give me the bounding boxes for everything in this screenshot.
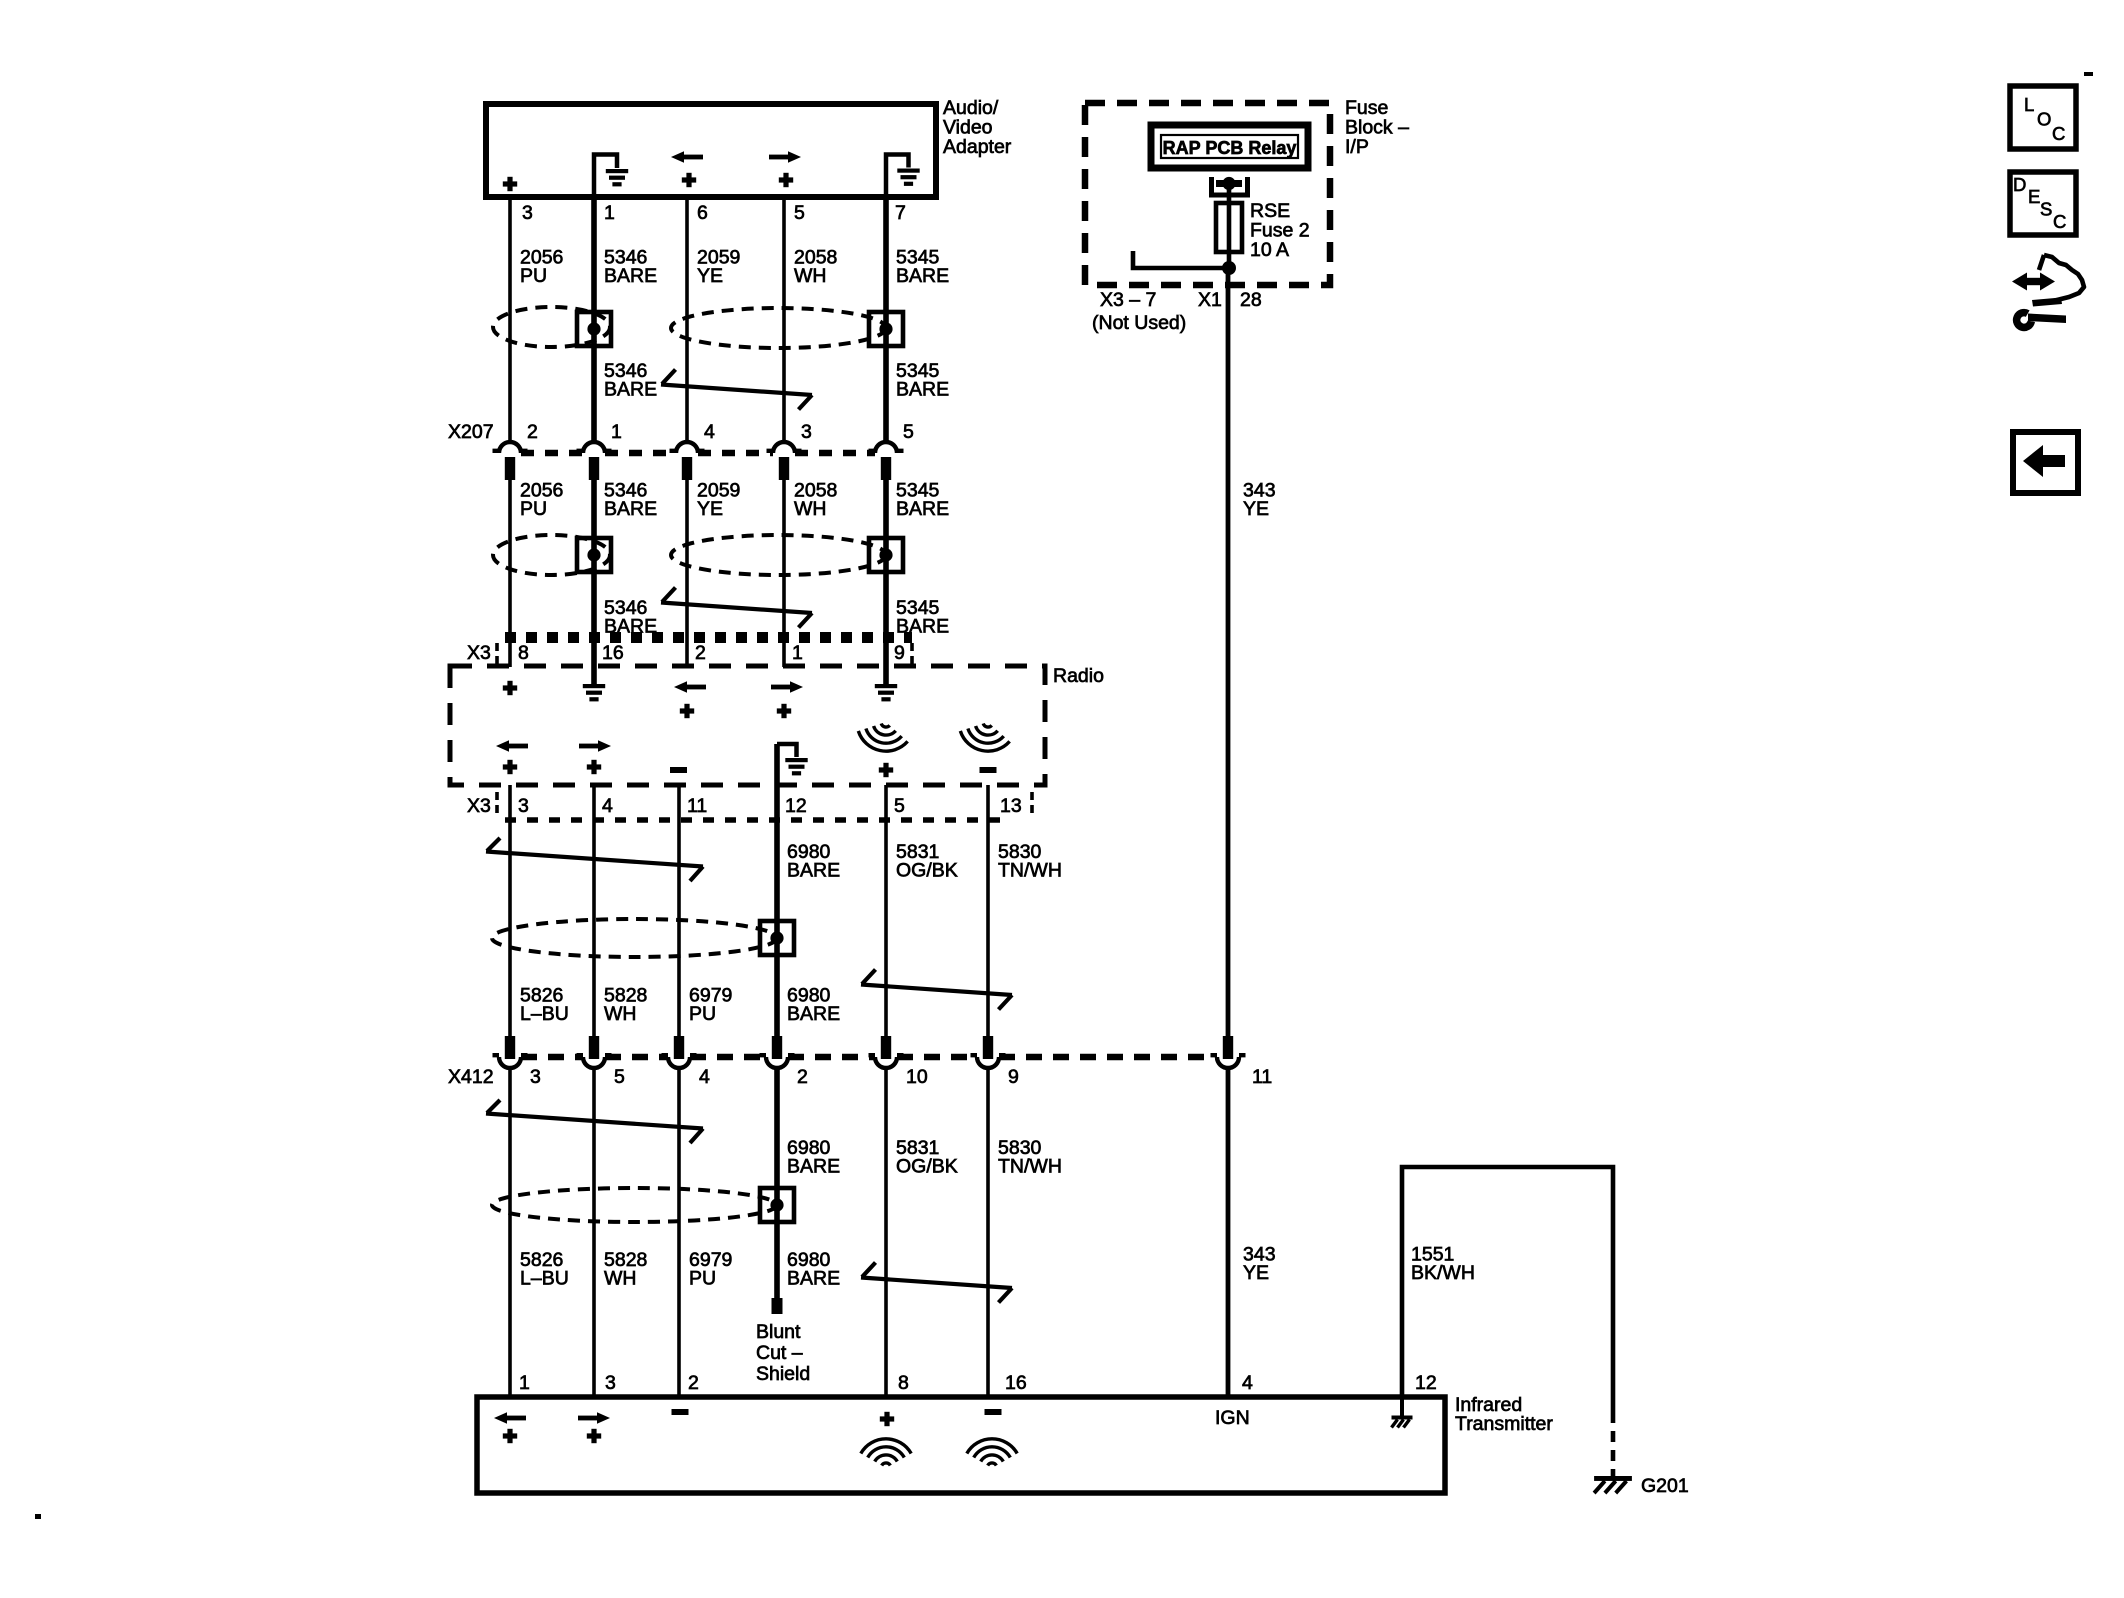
svg-text:Adapter: Adapter [943,136,1012,158]
radio antenna pin 13 [957,719,1012,756]
shield ellipse (2059/2058/5345) [671,308,886,348]
shield ellipse (2056/5346) [493,307,610,347]
IR pin 8 plus [880,1412,894,1426]
IR pin 16 minus [985,1409,1002,1415]
X412 terminal [674,1036,684,1059]
wire 6980 BARE seg1 [774,744,780,1037]
ground (AV pin 7) [897,169,919,186]
svg-text:X3: X3 [467,795,491,817]
radio pin 11 minus [670,767,687,773]
svg-text:28: 28 [1240,289,1262,311]
IR pin 3 plus [587,1429,601,1443]
svg-text:BARE: BARE [787,860,840,882]
radio pin 5 plus [879,763,893,777]
wire 5345 BARE seg2 [883,478,889,684]
IR antenna pin 16 [967,1439,1017,1466]
connector X3 (radio top) [505,632,912,643]
wire 5828 seg1 [592,785,596,1037]
svg-text:12: 12 [785,795,807,817]
svg-text:BARE: BARE [896,265,949,287]
Radio box [450,666,1045,785]
wire 5826 seg2 [508,1068,512,1397]
wire relay to fuse [1227,187,1232,268]
svg-text:1: 1 [519,1372,530,1394]
stray mark top right [2084,72,2093,76]
twist marker 1 [661,370,812,410]
tools icon wrench [2017,313,2032,328]
svg-text:WH: WH [794,498,827,520]
svg-text:12: 12 [1415,1372,1437,1394]
svg-text:E: E [2028,186,2040,207]
svg-text:BARE: BARE [896,616,949,638]
svg-text:BARE: BARE [604,379,657,401]
X207 terminal [670,442,705,453]
svg-text:WH: WH [604,1268,637,1290]
svg-text:16: 16 [602,642,624,664]
svg-text:11: 11 [687,795,707,817]
shield square row2 on 5346 [577,538,611,572]
svg-text:YE: YE [1243,1262,1269,1284]
wire 2056 PU seg1 [508,197,512,443]
radio antenna pin 5 [855,719,910,756]
svg-text:2: 2 [688,1372,699,1394]
radio pin 8 plus [503,681,517,695]
tools icon double arrow [2012,273,2027,291]
svg-text:4: 4 [602,795,613,817]
wire 5831 seg1 [884,785,888,1037]
svg-text:2: 2 [695,642,706,664]
radio pin 3 plus [503,760,517,774]
X3-7 stub wire [1133,251,1229,268]
twist marker 5 [486,1100,703,1143]
wire 6979 seg1 [677,785,681,1037]
X412 terminal [772,1036,782,1059]
svg-text:TN/WH: TN/WH [998,860,1062,882]
wire 2058 WH seg1 [782,197,786,443]
Fuse Block I/P dashed box [1085,103,1330,285]
svg-text:4: 4 [704,421,715,443]
svg-text:3: 3 [522,202,533,224]
LOC icon [2010,86,2076,149]
svg-text:(Not Used): (Not Used) [1092,312,1186,334]
back arrow icon [2013,432,2078,493]
shield ellipse row4 [492,1188,777,1222]
Infrared Transmitter box [477,1397,1445,1493]
svg-text:8: 8 [898,1372,909,1394]
shield square row4 on 6980 [760,1188,794,1222]
radio pin 12 ground hook [777,744,797,757]
ground (AV pin 1) [606,169,628,186]
svg-text:YE: YE [697,265,723,287]
svg-text:3: 3 [801,421,812,443]
X207 terminal [577,442,612,453]
wire 5345 BARE seg1 [883,197,889,443]
X207 terminal [493,442,528,453]
radio pin 1 arrow right [771,681,803,693]
IR pin 12 stub [1400,1397,1404,1416]
ground (radio pin 12) [785,758,807,775]
svg-text:Transmitter: Transmitter [1455,1413,1553,1435]
twist marker 3 [486,838,703,881]
svg-text:YE: YE [1243,498,1269,520]
X412 terminal [505,1036,515,1059]
svg-text:6: 6 [697,202,708,224]
svg-text:PU: PU [520,498,547,520]
IR pin 1 arrow left [494,1412,526,1424]
svg-text:4: 4 [699,1066,710,1088]
svg-text:PU: PU [689,1003,716,1025]
svg-text:WH: WH [794,265,827,287]
X412 terminal [1223,1036,1233,1059]
svg-text:RAP PCB Relay: RAP PCB Relay [1163,138,1297,158]
wire 2056 PU seg2 [508,478,512,667]
svg-text:I/P: I/P [1345,136,1369,158]
ground (radio pin 16) [583,684,605,701]
svg-text:G201: G201 [1641,1475,1689,1497]
svg-text:BARE: BARE [787,1268,840,1290]
X207 terminal [869,442,904,453]
radio pin 13 minus [980,767,997,773]
svg-text:10: 10 [906,1066,928,1088]
svg-text:16: 16 [1005,1372,1027,1394]
svg-text:5: 5 [794,202,805,224]
svg-text:PU: PU [689,1268,716,1290]
wire 5830 seg1 [986,785,990,1037]
IR pin 3 arrow right [578,1412,610,1424]
DESC icon [2010,172,2076,235]
svg-text:4: 4 [1242,1372,1253,1394]
wire 1551 BK/WH [1402,1167,1613,1412]
wire 6980 BARE seg2 [774,1068,780,1300]
svg-text:L: L [2024,94,2034,115]
radio pin 1 plus [777,704,791,718]
wire 5346 BARE seg2 [591,478,597,684]
twist marker 6 [861,1263,1012,1303]
wire 2058 WH seg2 [782,478,786,667]
X412 terminal [881,1036,891,1059]
chassis ground pin 12 [1392,1416,1413,1428]
tools icon outline [2039,255,2044,270]
AV pin 3 plus [503,177,517,191]
shield square on 6980 [760,921,794,955]
svg-text:8: 8 [518,642,529,664]
svg-text:L–BU: L–BU [520,1268,569,1290]
twist marker 4 [861,970,1012,1010]
svg-text:Blunt: Blunt [756,1321,801,1343]
AV pin 1 ground hook [594,155,617,199]
ground (radio pin 9) [875,684,897,701]
radio pin 4 arrow right [579,740,611,752]
X412 terminal [983,1036,993,1059]
svg-text:C: C [2052,123,2065,144]
svg-text:BARE: BARE [787,1003,840,1025]
X412 terminal [589,1036,599,1059]
svg-text:11: 11 [1252,1066,1272,1088]
svg-text:X1: X1 [1198,289,1222,311]
fuse F1 RSE Fuse 2 10A [1216,203,1242,252]
shield ellipse row3 [492,919,777,957]
svg-text:BARE: BARE [604,265,657,287]
shield ellipse row2a [493,535,610,575]
svg-text:BARE: BARE [604,498,657,520]
IR pin 2 minus [672,1409,689,1415]
AV pin 5 arrow right [769,151,801,163]
svg-text:L–BU: L–BU [520,1003,569,1025]
svg-text:3: 3 [518,795,529,817]
svg-text:1: 1 [604,202,615,224]
svg-text:O: O [2037,109,2051,130]
wire 5346 BARE seg1 [591,197,597,443]
IR pin 1 plus [503,1429,517,1443]
AV pin 6 arrow left [671,151,703,163]
wire 5830 seg2 [986,1068,990,1397]
shield ellipse row2b [671,535,886,575]
svg-text:X3: X3 [467,642,491,664]
svg-text:C: C [2053,211,2066,232]
wire 2059 YE seg2 [685,478,689,667]
AV pin 6 plus [682,173,696,187]
wire 5826 seg1 [508,785,512,1037]
svg-text:5: 5 [903,421,914,443]
radio pin 2 arrow left [674,681,706,693]
svg-text:2: 2 [797,1066,808,1088]
relay socket bracket [1209,177,1214,197]
radio pin 4 plus [587,760,601,774]
wire 343 YE seg2 [1226,1068,1231,1397]
wire 5831 seg2 [884,1068,888,1397]
wire 2059 YE seg1 [685,197,689,443]
svg-text:Shield: Shield [756,1363,810,1385]
svg-text:9: 9 [894,642,905,664]
svg-text:10 A: 10 A [1250,239,1289,261]
svg-text:PU: PU [520,265,547,287]
svg-text:1: 1 [611,421,622,443]
svg-text:X412: X412 [448,1066,494,1088]
dashed ground lead [1611,1412,1616,1476]
svg-text:13: 13 [1000,795,1022,817]
svg-text:Radio: Radio [1053,665,1104,687]
shield terminal square on 5346 [577,312,611,346]
svg-text:3: 3 [530,1066,541,1088]
X207 terminal [767,442,802,453]
shield square row2 on 5345 [869,538,903,572]
junction node [1222,261,1236,275]
wire 6979 seg2 [677,1068,681,1397]
svg-text:OG/BK: OG/BK [896,1156,958,1178]
svg-text:BARE: BARE [896,379,949,401]
AV pin 7 ground hook [886,155,909,199]
svg-text:BARE: BARE [896,498,949,520]
radio pin 3 arrow left [496,740,528,752]
svg-text:2: 2 [527,421,538,443]
svg-text:Cut –: Cut – [756,1342,803,1364]
svg-text:S: S [2040,199,2052,220]
stray mark bottom left [35,1514,41,1519]
svg-text:YE: YE [697,498,723,520]
svg-text:OG/BK: OG/BK [896,860,958,882]
svg-text:WH: WH [604,1003,637,1025]
Audio/Video Adapter box U1 [486,104,936,197]
svg-text:5: 5 [894,795,905,817]
svg-text:IGN: IGN [1215,1407,1250,1429]
svg-text:BARE: BARE [787,1156,840,1178]
shield terminal square on 5345 [869,312,903,346]
svg-text:X207: X207 [448,421,494,443]
wire 343 YE seg1 [1226,268,1231,1037]
AV pin 5 plus [779,173,793,187]
svg-text:BK/WH: BK/WH [1411,1262,1475,1284]
IR antenna pin 8 [861,1439,911,1466]
wire 5828 seg2 [592,1068,596,1397]
svg-text:5: 5 [614,1066,625,1088]
svg-text:7: 7 [895,202,906,224]
svg-text:1: 1 [792,642,803,664]
svg-text:TN/WH: TN/WH [998,1156,1062,1178]
twist marker 2 [661,588,812,628]
svg-text:3: 3 [605,1372,616,1394]
svg-text:X3 – 7: X3 – 7 [1100,289,1156,311]
blunt cut end [772,1298,783,1314]
svg-text:D: D [2013,174,2026,195]
ground G201 [1594,1476,1632,1493]
relay K1 RAP PCB Relay [1151,125,1308,168]
svg-text:9: 9 [1008,1066,1019,1088]
radio pin 2 plus [680,704,694,718]
